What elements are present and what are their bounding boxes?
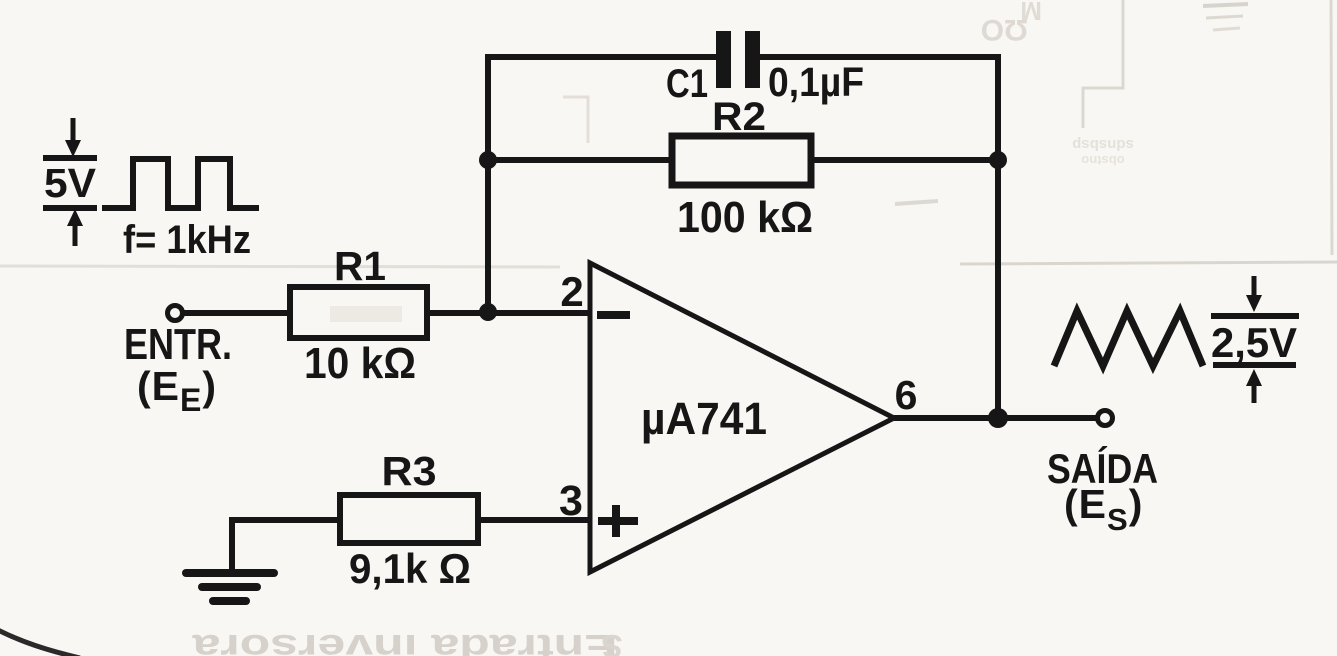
svg-text:f= 1kHz: f= 1kHz bbox=[123, 218, 251, 262]
capacitor C1 bbox=[716, 31, 760, 88]
svg-text:R3: R3 bbox=[382, 448, 437, 494]
wire R2 left bbox=[488, 157, 672, 163]
svg-text:0,1µF: 0,1µF bbox=[768, 59, 864, 105]
svg-text:ENTR.: ENTR. bbox=[124, 320, 232, 369]
amplitude marker bars 5V bbox=[43, 118, 97, 246]
resistor R2 bbox=[672, 136, 811, 185]
ground bbox=[186, 520, 274, 601]
square wave symbol bbox=[102, 159, 259, 208]
svg-text:10 kΩ: 10 kΩ bbox=[304, 339, 416, 388]
wire left vertical bbox=[485, 57, 491, 313]
svg-text:6: 6 bbox=[895, 372, 918, 418]
wire ground to R3 bbox=[229, 517, 340, 523]
svg-text:2,5V: 2,5V bbox=[1211, 319, 1297, 366]
wire R2 right bbox=[811, 157, 998, 163]
wire top left segment bbox=[485, 54, 716, 60]
triangle wave symbol bbox=[1054, 311, 1203, 366]
op-amp U1 µA741 bbox=[590, 263, 894, 572]
junction dot left R2 node bbox=[479, 151, 497, 169]
svg-text:C1: C1 bbox=[666, 62, 708, 106]
svg-text:R1: R1 bbox=[334, 243, 386, 289]
op-amp inverting input minus bbox=[597, 311, 630, 319]
wire R3 to pin 3 bbox=[478, 517, 590, 523]
amplitude marker bars 2,5V bbox=[1211, 276, 1299, 403]
wire right vertical bbox=[995, 57, 1001, 418]
svg-text:Entrada inversora: Entrada inversora bbox=[192, 627, 618, 656]
wire top right segment bbox=[760, 54, 1001, 60]
svg-text:S: S bbox=[601, 628, 622, 656]
svg-text:µA741: µA741 bbox=[641, 393, 767, 444]
junction dot right R2 node bbox=[989, 151, 1007, 169]
wire input to R1 bbox=[184, 310, 290, 316]
resistor R3 bbox=[340, 495, 478, 543]
input terminal ENTR bbox=[168, 306, 183, 321]
junction dot input node bbox=[479, 303, 497, 321]
svg-text:M: M bbox=[1020, 0, 1042, 26]
resistor R1 bbox=[290, 287, 427, 338]
svg-text:5V: 5V bbox=[44, 160, 97, 206]
svg-text:R2: R2 bbox=[712, 95, 766, 139]
svg-text:obstno: obstno bbox=[1081, 153, 1124, 168]
op-amp non-inverting input plus bbox=[598, 505, 638, 537]
svg-text:100 kΩ: 100 kΩ bbox=[677, 193, 813, 242]
svg-text:9,1k Ω: 9,1k Ω bbox=[349, 545, 471, 592]
svg-text:sdnsbsp: sdnsbsp bbox=[1072, 136, 1134, 153]
wire R1 to pin 2 bbox=[427, 310, 590, 316]
junction dot output node bbox=[988, 408, 1008, 428]
wire output bbox=[894, 415, 1097, 421]
svg-text:2: 2 bbox=[560, 268, 583, 315]
output terminal SAIDA bbox=[1098, 411, 1113, 426]
